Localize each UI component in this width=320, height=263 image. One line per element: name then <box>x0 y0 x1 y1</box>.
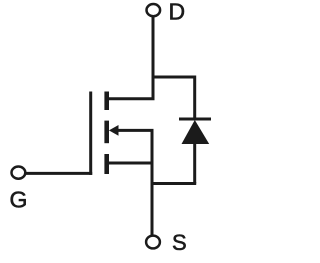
svg-text:G: G <box>10 187 28 213</box>
svg-text:D: D <box>169 0 186 25</box>
svg-text:S: S <box>172 230 187 255</box>
